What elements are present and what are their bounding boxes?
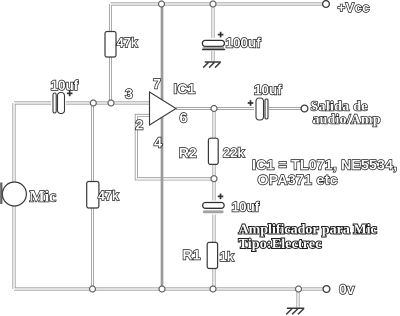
svg-text:IC1 = TL071, NE5534,: IC1 = TL071, NE5534, bbox=[252, 156, 397, 172]
svg-text:2: 2 bbox=[136, 117, 144, 133]
svg-text:OPA371 etc: OPA371 etc bbox=[258, 171, 338, 187]
svg-text:+Vcc: +Vcc bbox=[338, 0, 370, 15]
svg-text:audio/Amp: audio/Amp bbox=[313, 112, 381, 127]
svg-text:R2: R2 bbox=[179, 144, 197, 160]
svg-text:IC1: IC1 bbox=[174, 81, 196, 97]
svg-text:22k: 22k bbox=[223, 145, 245, 160]
svg-text:Amplificador para Mic: Amplificador para Mic bbox=[239, 222, 377, 237]
svg-text:3: 3 bbox=[125, 86, 133, 102]
svg-text:Tipo:Electrec: Tipo:Electrec bbox=[239, 237, 322, 252]
svg-text:10uf: 10uf bbox=[51, 78, 79, 93]
svg-text:100uf: 100uf bbox=[226, 35, 262, 50]
svg-text:47k: 47k bbox=[117, 36, 138, 50]
svg-text:0v: 0v bbox=[339, 281, 355, 297]
svg-text:47k: 47k bbox=[98, 189, 119, 203]
svg-text:Mic: Mic bbox=[30, 189, 57, 206]
svg-text:10uf: 10uf bbox=[232, 200, 260, 215]
svg-text:1k: 1k bbox=[220, 249, 235, 264]
svg-text:7: 7 bbox=[153, 76, 161, 92]
svg-text:6: 6 bbox=[180, 110, 188, 126]
svg-text:4: 4 bbox=[154, 136, 162, 152]
svg-text:R1: R1 bbox=[183, 246, 201, 262]
svg-text:10uf: 10uf bbox=[254, 82, 282, 97]
